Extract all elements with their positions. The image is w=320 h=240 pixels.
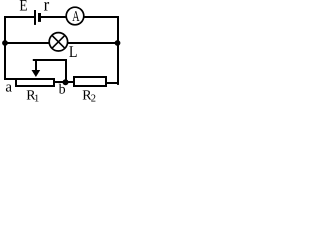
wire slider horizontal from arrow to elbow [33, 59, 67, 61]
label b (right terminal of R1) [59, 83, 66, 98]
label R2 [82, 88, 96, 104]
svg-text:a: a [5, 80, 12, 96]
svg-text:L: L [69, 42, 78, 61]
lamp L circle with cross [49, 33, 67, 51]
battery E,r short thick plate (negative) [38, 13, 41, 22]
node junction dot left rail / lamp branch [2, 40, 8, 46]
wire middle-right from lamp to right rail [67, 42, 118, 44]
label E (emf) [19, 0, 27, 15]
wire middle-left from left rail to lamp [4, 42, 50, 44]
svg-text:2: 2 [91, 94, 96, 104]
svg-text:A: A [72, 9, 79, 25]
svg-text:E: E [19, 0, 27, 15]
label a (left terminal of R1) [5, 80, 12, 96]
resistor R2 body [73, 76, 107, 87]
wire left vertical [4, 16, 6, 80]
label R1 [26, 88, 39, 104]
label L (lamp) [69, 42, 78, 61]
label r (internal resistance) [44, 0, 50, 14]
ammeter A circle [66, 7, 84, 25]
wire top-left segment from left corner to battery [4, 16, 35, 18]
wire from R2 to bottom-right corner [106, 82, 119, 84]
svg-text:1: 1 [34, 94, 39, 104]
wire bottom-left stub from left rail to R1 terminal a [4, 78, 17, 80]
wire from R1 to R2 through node b [54, 81, 75, 83]
wire from battery to ammeter [41, 16, 66, 18]
rheostat slider arrow onto R1 [32, 59, 41, 77]
wire right vertical [117, 16, 119, 85]
wire slider vertical down to node b [65, 59, 67, 82]
node junction dot b (slider tap join) [63, 79, 69, 85]
battery E,r long plate (positive) [34, 10, 36, 25]
svg-text:r: r [44, 0, 50, 14]
node junction dot right rail / lamp branch [115, 40, 121, 46]
svg-text:b: b [59, 83, 66, 98]
resistor R1 (rheostat body) [15, 78, 55, 87]
wire from ammeter to top-right corner [84, 16, 119, 18]
